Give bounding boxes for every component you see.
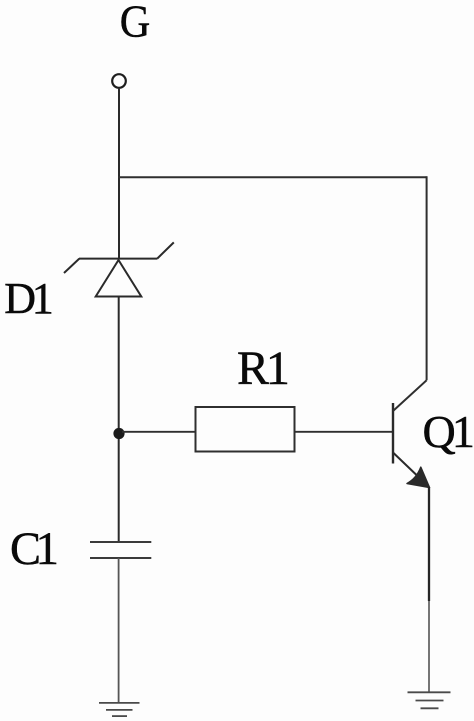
diode D1 cathode left bent tick xyxy=(64,259,79,273)
wire right vertical to collector xyxy=(426,176,428,380)
svg-text:C1: C1 xyxy=(10,524,57,575)
ground left line 1 xyxy=(99,702,140,704)
node G terminal circle xyxy=(112,74,126,88)
resistor R1 body xyxy=(196,407,295,452)
transistor Q1 emitter arrowhead xyxy=(407,467,430,487)
diode D1 triangle xyxy=(96,260,142,297)
wire top horizontal xyxy=(118,176,427,178)
svg-text:Q1: Q1 xyxy=(423,406,473,457)
capacitor C1 bottom plate xyxy=(90,557,151,559)
ground right line 1 xyxy=(408,691,451,693)
ground left line 2 xyxy=(106,709,133,711)
capacitor C1 top plate xyxy=(90,541,151,543)
transistor Q1 base bar xyxy=(392,403,394,464)
svg-text:G: G xyxy=(120,0,151,47)
wire emitter down upper segment xyxy=(428,487,430,601)
svg-text:R1: R1 xyxy=(237,342,288,395)
transistor Q1 emitter diagonal xyxy=(393,453,428,487)
wire node A to R1 xyxy=(122,431,195,433)
wire G terminal to D1 cathode xyxy=(118,88,120,259)
transistor Q1 collector diagonal xyxy=(393,380,427,411)
wire D1 anode to node A xyxy=(118,297,120,543)
node A junction dot xyxy=(113,428,124,439)
diode D1 cathode right bent tick xyxy=(157,242,174,258)
ground right line 2 xyxy=(416,700,444,702)
diode D1 cathode bar xyxy=(79,258,157,260)
wire C1 to ground xyxy=(118,558,120,703)
svg-text:D1: D1 xyxy=(4,274,52,323)
wire R1 to Q1 base xyxy=(295,431,393,433)
ground right line 3 xyxy=(421,707,439,709)
ground left line 3 xyxy=(112,715,127,717)
wire emitter down lower segment xyxy=(428,601,430,693)
